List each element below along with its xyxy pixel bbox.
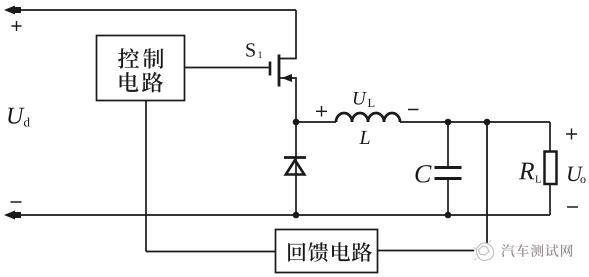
- diode D (freewheeling): cathode bar: [284, 156, 306, 159]
- wire: capacitor top lead: [447, 122, 449, 166]
- wire: feedback sense vertical (crosses bottom bus): [486, 122, 488, 251]
- label: C capacitor designator: [415, 165, 431, 182]
- node: capacitor bottom junction: [445, 212, 452, 219]
- inductor L coil: [336, 113, 400, 122]
- arrow: bottom-left return arrow: [4, 211, 15, 220]
- capacitor C: top plate: [435, 166, 462, 169]
- label: Uo output voltage: [568, 167, 583, 182]
- node: junction dot at switch output: [293, 119, 300, 126]
- label: 控制 (line 1): [118, 48, 139, 68]
- wire: load bottom lead: [549, 184, 551, 215]
- feedback circuit box: [276, 230, 378, 273]
- watermark: logo icon: [474, 240, 494, 263]
- wire: node A to inductor: [296, 121, 336, 123]
- wire: diode branch vertical: [295, 122, 297, 215]
- wire: gate drive from control box to S1 gate: [185, 67, 269, 69]
- label: L inductor designator: [359, 131, 369, 144]
- wire: feedback output into box (horizontal): [146, 251, 275, 253]
- diode D: triangle: [286, 160, 305, 175]
- label: plus (input +): [12, 21, 22, 31]
- label: minus (U_L -): [408, 109, 419, 111]
- label: plus (output +): [566, 129, 577, 140]
- arrow: top-left input arrow: [4, 6, 15, 15]
- wire: control box to feedback box (vertical at x=146): [145, 101, 147, 252]
- label: RL load designator: [519, 163, 534, 180]
- capacitor C: bottom plate: [435, 177, 462, 180]
- wire: inductor to capacitor node: [400, 121, 550, 123]
- wire: load top lead: [549, 122, 551, 152]
- watermark: 汽车测试网 text: [501, 244, 514, 257]
- control circuit box U_ctrl: [97, 36, 185, 101]
- label: Ud input voltage: [8, 108, 24, 124]
- wire: capacitor bottom lead: [447, 180, 449, 215]
- node: capacitor top junction: [445, 119, 452, 126]
- label: 回馈电路: [288, 243, 305, 262]
- label: minus (input -): [11, 201, 22, 203]
- label: 电路 (line 2): [120, 72, 139, 92]
- node: diode anode junction on bottom bus: [293, 212, 300, 219]
- wire: top input bus: [10, 9, 296, 11]
- transistor S1: channel bar: [278, 55, 281, 87]
- resistor RL body: [545, 152, 557, 185]
- label: U_L inductor voltage: [354, 92, 367, 105]
- label: S1 switch designator: [246, 43, 255, 56]
- node: feedback sense junction: [484, 119, 491, 126]
- label: minus (output -): [567, 206, 578, 208]
- transistor S1: gate bar: [269, 62, 272, 76]
- transistor S1: source arrow: [282, 74, 293, 82]
- label: plus (U_L +): [316, 106, 327, 117]
- wire: bottom return bus: [10, 214, 550, 216]
- transistor S1: source lead: [279, 78, 296, 122]
- transistor S1: drain lead: [279, 10, 296, 59]
- wire: feedback box to sense corner: [378, 250, 488, 252]
